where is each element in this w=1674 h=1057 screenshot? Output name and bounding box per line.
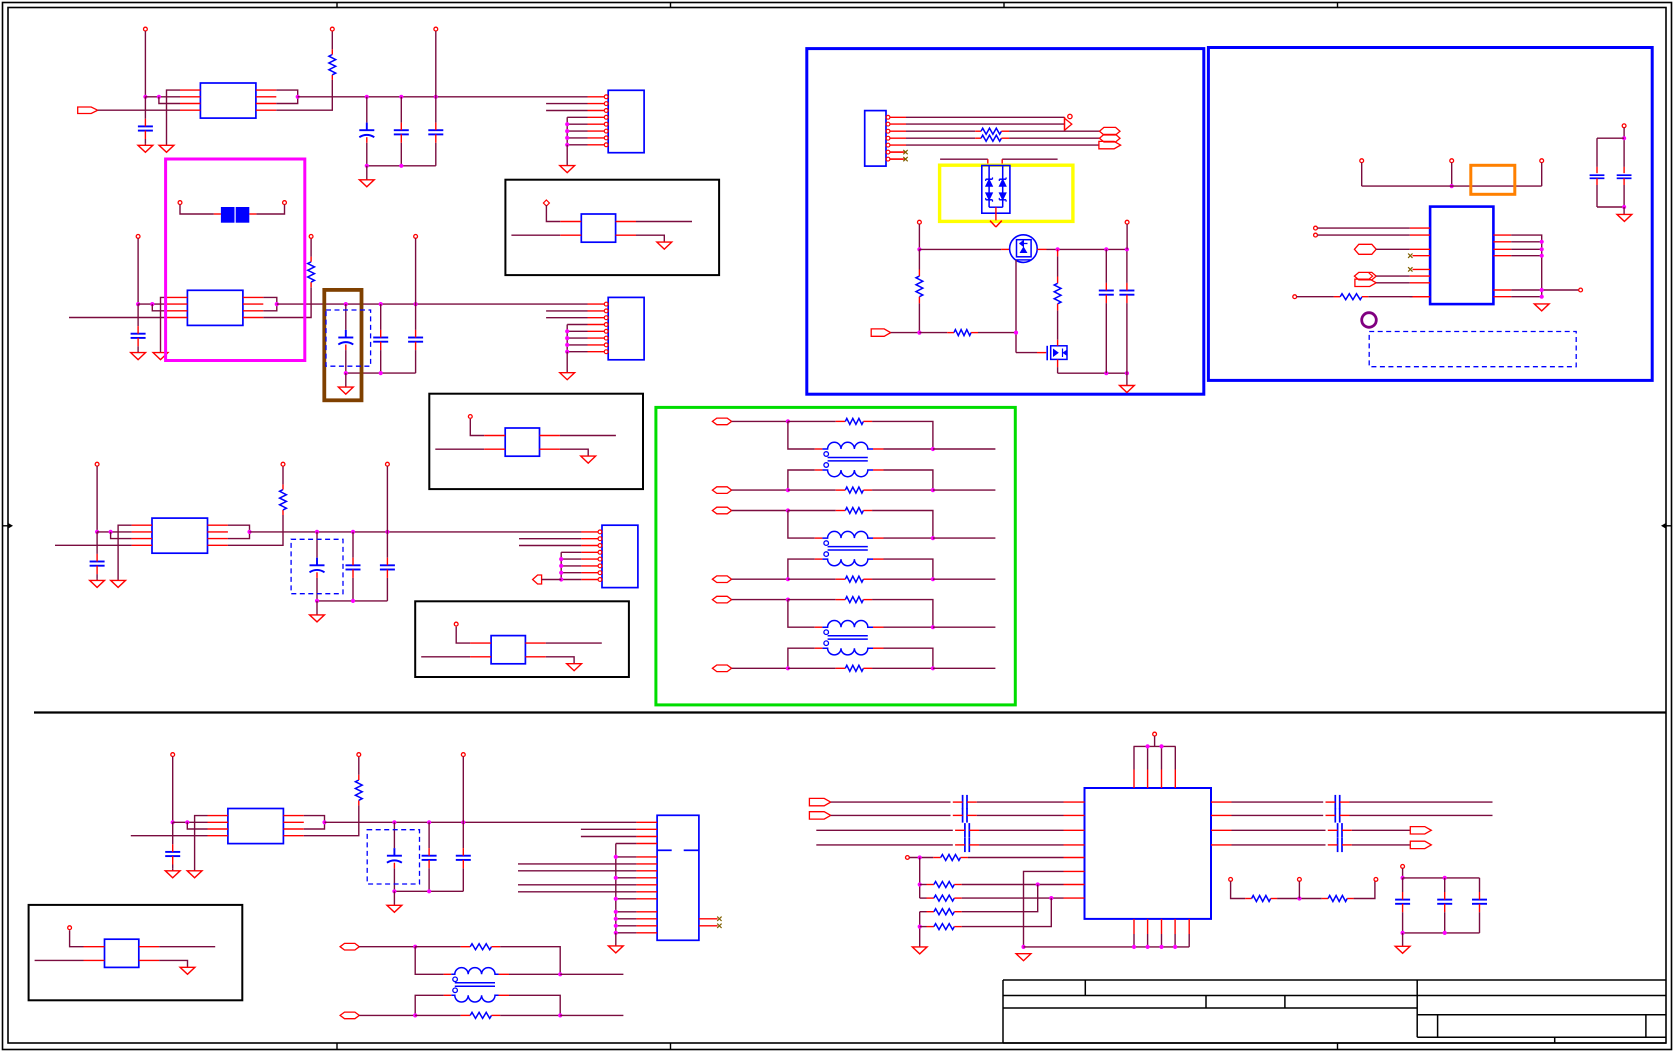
node dot at left rail U1 (143, 95, 147, 99)
node dot R12 out (1049, 896, 1053, 900)
pin Y1 top (543, 200, 549, 206)
wire cap to ground C4a (172, 869, 174, 871)
ground G2a (153, 353, 168, 360)
wire RC c (1354, 881, 1375, 898)
ground U5 (1534, 304, 1549, 311)
ic U6 (1085, 788, 1212, 919)
capacitor C5b (1126, 251, 1128, 283)
wire gnd hook pin1 U2 (161, 297, 168, 352)
node dot 7a (786, 598, 790, 602)
wire cap to ground C1a (144, 143, 146, 145)
wire rail left U2 (138, 303, 167, 305)
wire J4 pin10 long (518, 891, 636, 893)
port CANL (1100, 134, 1121, 142)
power pin VCC4 (171, 753, 175, 757)
series cap CS1 (962, 795, 964, 809)
wire out bottom 5 (933, 489, 996, 491)
capacitor C6b (1623, 139, 1625, 167)
pin U5 c (1293, 295, 1297, 299)
node dot hook U1 (157, 95, 161, 99)
wire U6 rrow3 (1232, 829, 1326, 831)
resistor R2a (310, 282, 312, 287)
wire U6 rrow2 b (1350, 814, 1493, 816)
wire cap bank rail (1403, 877, 1480, 879)
node dot bus A (918, 882, 922, 886)
node dot bottom rail 1 U2 (344, 371, 348, 375)
transformer T7 top winding (822, 621, 873, 628)
wire left bus B (919, 912, 921, 947)
ground U6 left (1016, 954, 1031, 961)
border zone tick bottom 2 (670, 1043, 672, 1050)
node dot at left rail U2 (136, 302, 140, 306)
wire U5 pin2 (1317, 234, 1409, 236)
voltage regulator U3 (152, 518, 208, 553)
node dot bottom rail 2 U3 (351, 599, 355, 603)
wire output hook U3 (228, 525, 250, 538)
wire VCC1 down (144, 31, 146, 97)
resistor R14 (920, 926, 927, 928)
indicator circle purple (1362, 313, 1377, 328)
node dot J3 pin6 (559, 564, 563, 568)
no-connect J4 right 1 (699, 918, 718, 920)
pin 3V3 b (1450, 159, 1454, 163)
transformer T8 top winding (451, 968, 498, 975)
capacitor C7c (1479, 878, 1481, 892)
wire gnd hook pin1 U1 (167, 90, 181, 145)
port A flag (809, 798, 830, 805)
wire rail left U3 (97, 531, 132, 533)
wire U6 row3 (816, 829, 953, 831)
wire J3 pin2 (519, 538, 581, 540)
pin Y3 top (454, 622, 458, 626)
highlight box brown (324, 290, 361, 400)
transformer T5 top winding (822, 442, 873, 449)
wire resistor to corner 7a (872, 600, 933, 628)
pin VIN left (918, 220, 922, 224)
wire stub right bridge (1002, 158, 1057, 160)
port IN5b (712, 487, 731, 494)
input cap C1a (144, 97, 146, 119)
ground cap bank (1395, 946, 1410, 953)
node dot 5b (931, 447, 935, 451)
wire output hook U4 (304, 816, 325, 829)
voltage regulator U2 (187, 290, 243, 325)
pin top R1a (330, 27, 334, 31)
ground Y3 (567, 664, 582, 671)
transformer T7 core (828, 635, 868, 637)
wire U6 rrow1 b (1350, 801, 1493, 803)
node dot J2 pin8 (565, 350, 569, 354)
decoupling cap C1b (366, 97, 368, 123)
series cap CS6 (1334, 808, 1336, 822)
wire resistor to corner 8a (500, 947, 560, 975)
wire output hook U2 (263, 297, 277, 310)
pin U6 top (1153, 732, 1157, 736)
transformer T8 core (455, 982, 495, 984)
wire choke bottom right 7 (873, 647, 884, 649)
resistor R6b (836, 578, 846, 580)
wire cap bottom rail U1 (367, 165, 436, 167)
wire J4 pin9 long (518, 884, 636, 886)
wire choke top right 8 (499, 973, 510, 975)
ic U6 bottom stubs (1133, 919, 1135, 934)
wire input to U4 (131, 835, 208, 837)
module box Y2 (429, 394, 643, 489)
highlight box green (656, 407, 1015, 705)
series cap CS5 (1334, 795, 1336, 809)
ground G3c (310, 615, 325, 622)
U2 pin stubs (167, 296, 187, 298)
ground J2 (560, 373, 575, 380)
wire gnd hook pin1 U4 (195, 816, 208, 871)
wire U5 pin8 right (1368, 296, 1412, 298)
port B flag (809, 812, 830, 819)
connector J1 pin circles (604, 95, 608, 99)
node dot 8d (558, 1013, 562, 1017)
wire R13 up (962, 885, 1038, 912)
node dot U5 out (1540, 288, 1544, 292)
wire output rail U2 (277, 303, 588, 305)
wire to resistor 7b (788, 667, 836, 669)
decoupling cap C3c (352, 532, 354, 558)
decoupling cap C3d (386, 532, 388, 558)
transformer T5 bottom winding (822, 470, 873, 477)
wire RC b (1298, 881, 1300, 898)
pin fuse right (283, 201, 287, 205)
ground G1c (359, 180, 374, 187)
port IN7b (712, 665, 731, 672)
node dot 7c (786, 666, 790, 670)
wire cap to ground C3a (96, 578, 98, 580)
node dot rail cap C3b (315, 530, 319, 534)
wire to resistor 6a (788, 510, 836, 512)
node dot U5 bus (1540, 240, 1544, 244)
wire pin to rail cap 3 (386, 466, 388, 532)
ground J1 (560, 166, 575, 173)
resistor R3a (282, 510, 284, 515)
fuse F1 (221, 207, 235, 223)
wire J2 to ground (566, 352, 568, 373)
wire U6 row6 route (1024, 871, 1064, 947)
wire J4 to ground (615, 933, 617, 946)
wire Y3 out upper (525, 642, 545, 644)
wire U6 row1 (831, 801, 951, 803)
resistor R7a (836, 599, 846, 601)
port IN6b (712, 576, 731, 583)
wire choke top left 5 (788, 421, 815, 449)
node dot output U3 (247, 530, 251, 534)
wire Y2 lower in (435, 448, 484, 450)
node dot 6d (931, 577, 935, 581)
series cap CS7 (1337, 823, 1339, 837)
wire input to U1 (98, 109, 180, 111)
wire pin to rail cap 2 (415, 238, 417, 304)
wire R5a to port (1009, 130, 1099, 132)
node dot bus B (918, 925, 922, 929)
port out J3 (533, 575, 542, 584)
wire port to J3 (542, 579, 562, 581)
port C flag (1410, 827, 1431, 834)
wire J4 pin7 long (518, 870, 636, 872)
mosfet Q2 (1046, 346, 1048, 361)
resistor R12 (920, 897, 927, 899)
wire U5 pin1 (1317, 227, 1409, 229)
node dot gate (1014, 331, 1018, 335)
wire R7 to gate node (978, 332, 1016, 334)
node dot J4 pin11 (614, 897, 618, 901)
wire output rail U3 (250, 531, 582, 533)
node dot bottom rail 2 U1 (399, 164, 403, 168)
wire VCC4 down (172, 757, 174, 823)
no-connect U5 pin4 (1408, 254, 1412, 258)
resistor R15 (1245, 898, 1251, 900)
wire hook pin3 U3 (111, 532, 132, 539)
wire Y2 out upper (540, 435, 560, 437)
node dot fet out 3 (1125, 247, 1129, 251)
node dot 8b (558, 972, 562, 976)
wire pin vout (1126, 224, 1128, 249)
resistor R8a (461, 946, 471, 948)
wire resistor to corner 5a (872, 421, 933, 449)
connector J3 (602, 525, 638, 587)
wire J1 gnd bus (567, 116, 587, 118)
node dot rail cap C4d (461, 820, 465, 824)
node dot 6c (786, 577, 790, 581)
wire Y4 in (70, 930, 84, 947)
wire choke top left 7 (788, 600, 815, 628)
wire enable (891, 332, 920, 334)
U1 pin stubs (180, 89, 200, 91)
transformer T6 core (828, 546, 868, 548)
wire gate vertical (1015, 260, 1017, 353)
dashed box C2b (326, 310, 371, 366)
wire J2 gnd bus (567, 324, 587, 326)
highlight box orange (1471, 165, 1515, 194)
wire U5 pin7 (1376, 282, 1410, 284)
ground G4a (187, 871, 202, 878)
input port P1 (78, 107, 98, 114)
node dot J3 pin7 (559, 571, 563, 575)
port CANH (1100, 127, 1121, 135)
wire choke bottom left 6 (815, 558, 823, 560)
resistor R5a (836, 420, 846, 422)
decoupling cap C2c (380, 304, 382, 330)
capacitor C7a (1402, 878, 1404, 892)
node dot J2 pin5 (565, 329, 569, 333)
wire out bottom 8 (560, 1014, 623, 1016)
input cap C2a (137, 304, 139, 326)
wire cap bank bottom (1403, 932, 1480, 934)
wire port row 6a (732, 510, 788, 512)
port VIN flag (1099, 141, 1121, 148)
pin Y4 top (68, 926, 72, 930)
wire pin to rail cap 1 (435, 31, 437, 97)
dashed note box (1369, 332, 1576, 367)
ground Y1 (657, 242, 672, 249)
node dot cap bank 2 (1443, 876, 1447, 880)
wire J4 gnd bus (616, 843, 637, 845)
pin C6 top (1622, 124, 1626, 128)
wire to resistor 6b (788, 578, 836, 580)
node dot C6 top (1622, 136, 1626, 140)
node dot 8c (413, 1013, 417, 1017)
wire to ground U3 caps (316, 601, 318, 615)
wire U6 rrow3 b (1352, 829, 1411, 831)
wire J3 gnd bus (561, 551, 581, 553)
wire gnd hook pin1 U3 (118, 525, 132, 580)
wire supply bus (1362, 185, 1542, 187)
wire U5 right bus (1511, 235, 1542, 297)
decoupling cap C2d (415, 304, 417, 330)
node dot cap bank 3 (1401, 931, 1405, 935)
pin top cap rail 1 (434, 27, 438, 31)
wire J4 pin6 long (518, 863, 636, 865)
node dot U6 bottom (1146, 945, 1150, 949)
pin U5 out (1579, 288, 1583, 292)
node dot bottom rail 1 U3 (315, 599, 319, 603)
wire R5b to port (1009, 137, 1099, 139)
oscillator Y3 (491, 636, 525, 664)
wire cap bottom rail U3 (317, 600, 387, 602)
ground bridge (990, 221, 996, 227)
wire hook pin3 U2 (152, 304, 167, 311)
wire out bottom 7 (933, 667, 996, 669)
node dot 6b (931, 536, 935, 540)
pin VOUT right (1125, 220, 1129, 224)
wire bias (909, 857, 933, 859)
wire pin to rail cap 4 (462, 757, 464, 823)
wire choke top left 8 (415, 947, 443, 975)
node dot 5d (931, 488, 935, 492)
wire to resistor 5a (788, 420, 836, 422)
node dot at left rail U3 (95, 530, 99, 534)
wire rail left U1 (145, 96, 180, 98)
wire U6 row4 (816, 844, 953, 846)
resistor R8b (461, 1014, 471, 1016)
wire U6 gnd rail (1024, 946, 1190, 948)
pin RC b (1298, 878, 1302, 882)
wire U6 top bus (1134, 745, 1176, 747)
wire enable to resistor (919, 332, 947, 334)
ground power section (1120, 386, 1135, 393)
transformer T7 bottom winding (822, 648, 873, 655)
node dot U5 gnd (1540, 295, 1544, 299)
node dot rail cap C3d (385, 530, 389, 534)
wire U6 rrow4 (1232, 844, 1326, 846)
wire drops into bridge (987, 159, 989, 165)
pin top cap rail 3 (386, 462, 390, 466)
node dot hook U4 (185, 820, 189, 824)
pin U5 b (1314, 233, 1318, 237)
node dot J1 pin8 (565, 143, 569, 147)
wire VCC3 down (96, 466, 98, 532)
node dot bottom rail a (1104, 371, 1108, 375)
ic U6 right stubs (1211, 801, 1232, 803)
port TX flag (1355, 279, 1376, 286)
series cap CS8 (1337, 838, 1339, 852)
pin top R3a (281, 462, 285, 466)
wire cap bottom rail U2 (346, 372, 416, 374)
connector J3 pin circles (598, 530, 602, 534)
wire Q2 source (1057, 359, 1059, 367)
node dot J2 pin7 (565, 343, 569, 347)
wire input to U2 (69, 317, 167, 319)
wire resistor to node 6b (872, 578, 933, 580)
wire C6 pin down (1623, 128, 1625, 139)
pin 3V3 a (1360, 159, 1364, 163)
capacitor C5a (1105, 249, 1107, 283)
module box Y4 (29, 905, 243, 1000)
decoupling cap C4c (428, 822, 430, 848)
wire cap bottom rail U4 (394, 890, 463, 892)
wire J1 pin2 (546, 103, 587, 105)
port IN8b (340, 1012, 359, 1019)
ic U6 top stubs (1133, 770, 1135, 789)
wire R14 up (962, 898, 1052, 927)
resistor R7b (836, 667, 846, 669)
ground G2b (131, 353, 146, 360)
node dot rail cap C2d (414, 302, 418, 306)
ground G4b (165, 871, 180, 878)
wire to resistor 5b (788, 489, 836, 491)
wire input to U3 (55, 544, 132, 546)
pin Y2 top (468, 415, 472, 419)
wire bridge to ground (995, 207, 997, 220)
ground J4 (608, 946, 623, 953)
wire choke bottom left 8 (444, 994, 452, 996)
pin fuse left (178, 201, 182, 205)
node dot bottom rail b (1125, 371, 1129, 375)
wire U5 pin8 left (1297, 296, 1334, 298)
ground G2c (338, 387, 353, 394)
connector J5 (865, 111, 886, 167)
node dot supply bus (1450, 184, 1454, 188)
node dot enable (917, 331, 921, 335)
diode bridge D1 (982, 166, 1010, 214)
ground Y4 (180, 967, 195, 974)
port IN6a (712, 507, 731, 514)
pin 3V3 c (1540, 159, 1544, 163)
resistor R13 (920, 911, 927, 913)
wire Y1 out upper (616, 221, 636, 223)
wire out top 5 (933, 448, 996, 450)
node dot J2 pin6 (565, 336, 569, 340)
ic U6 left stubs (1064, 801, 1085, 803)
wire Y4 lower in (35, 959, 84, 961)
title block frame (1003, 979, 1666, 981)
node dot J4 pin8 (614, 876, 618, 880)
resistor R4a (358, 800, 360, 805)
wire port row 7a (732, 599, 788, 601)
border zone tick right mid (1666, 525, 1672, 527)
wire U5 pin3 (1376, 248, 1410, 250)
node dot cap bank 1 (1401, 876, 1405, 880)
pin RC a (1229, 878, 1233, 882)
wire choke top right 6 (873, 537, 884, 539)
wire Y4 out upper (139, 946, 159, 948)
wire Y3 lower in (421, 656, 470, 658)
wire J5 pin1 (906, 116, 1065, 118)
no-connect J4 right 2 (699, 925, 718, 927)
wire RC a (1231, 881, 1246, 898)
node dot J3 pin8 (559, 577, 563, 581)
node dot rail cap C1d (434, 95, 438, 99)
connector J4 (657, 815, 699, 940)
wire output rail U4 (325, 821, 637, 823)
wire feedback pin4 U1 (276, 80, 332, 110)
resistor R6 vertical (918, 249, 920, 269)
wire resistor to node 5b (872, 489, 933, 491)
